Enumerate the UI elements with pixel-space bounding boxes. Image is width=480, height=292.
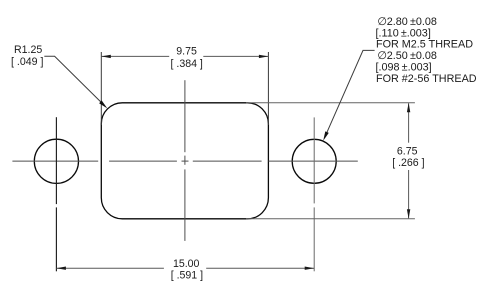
dimension line 9.75	[101, 55, 268, 57]
extension lines for 9.75 dimension	[101, 52, 268, 125]
svg-text:[.098 ±.003]: [.098 ±.003]	[376, 61, 432, 73]
extension lines for 6.75 dimension	[246, 103, 415, 219]
center mark cross	[182, 156, 189, 165]
svg-text:[ .049 ]: [ .049 ]	[11, 56, 43, 68]
arrowhead bottom of 6.75	[407, 209, 410, 219]
right mounting hole circle	[292, 139, 336, 183]
svg-text:[ .384 ]: [ .384 ]	[170, 58, 202, 70]
arrowhead left of 15.00	[56, 267, 66, 270]
svg-text:9.75: 9.75	[176, 45, 197, 57]
leader line for R1.25 callout	[44, 56, 104, 105]
svg-text:∅2.80 ±0.08: ∅2.80 ±0.08	[377, 16, 437, 28]
svg-text:FOR M2.5 THREAD: FOR M2.5 THREAD	[376, 39, 473, 51]
svg-text:6.75: 6.75	[397, 146, 418, 158]
svg-text:[ .591 ]: [ .591 ]	[171, 270, 203, 282]
arrowhead right of 15.00	[305, 267, 315, 270]
svg-text:15.00: 15.00	[173, 258, 200, 270]
left circle vertical centerline	[55, 117, 57, 271]
right circle vertical centerline	[313, 117, 315, 271]
arrowhead left of 9.75	[101, 55, 111, 58]
horizontal centerline	[12, 160, 357, 162]
arrowhead top of 6.75	[407, 103, 410, 113]
svg-text:∅2.50 ±0.08: ∅2.50 ±0.08	[377, 50, 437, 62]
vertical centerline of rectangle	[184, 80, 186, 241]
dimension line 15.00	[56, 267, 314, 269]
left mounting hole circle	[34, 139, 78, 183]
svg-text:FOR #2-56 THREAD: FOR #2-56 THREAD	[376, 73, 477, 85]
svg-text:[.110 ±.003]: [.110 ±.003]	[376, 27, 431, 39]
arrowhead of R1.25 leader	[99, 100, 107, 108]
leader line for hole diameter callout	[326, 50, 375, 134]
arrowhead right of 9.75	[259, 55, 269, 58]
rounded rectangle cutout outline	[101, 103, 268, 219]
svg-text:[ .266 ]: [ .266 ]	[392, 157, 424, 169]
dimension line 6.75	[408, 103, 410, 218]
svg-text:R1.25: R1.25	[14, 44, 42, 56]
arrowhead of diameter leader	[323, 131, 329, 140]
